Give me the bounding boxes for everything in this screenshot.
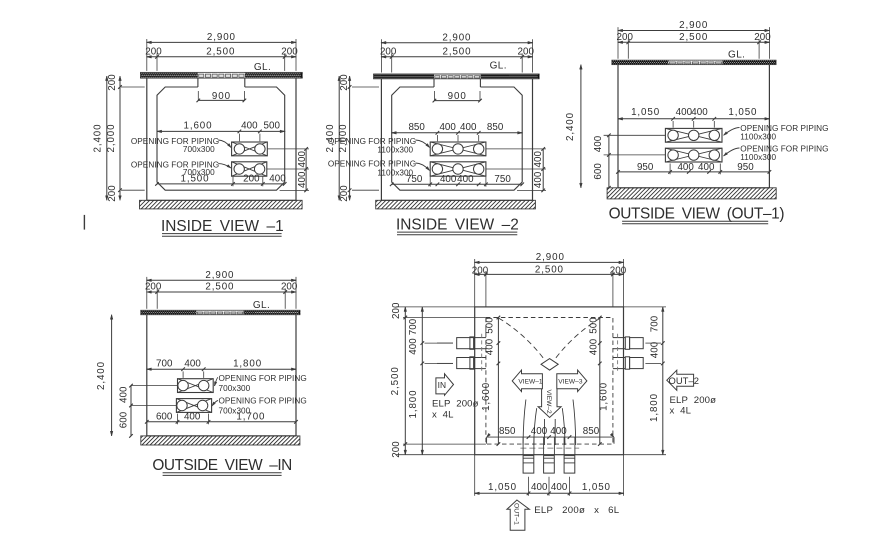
svg-text:400: 400 — [118, 386, 129, 403]
view1 opening 700x300 upper — [232, 142, 268, 156]
view4 left dim 2,400 — [111, 315, 113, 436]
svg-text:600: 600 — [593, 163, 604, 180]
view4 left dims 400/600 — [131, 385, 178, 387]
plan outer square — [475, 307, 624, 455]
view2 opening 1100x300 lower — [430, 162, 486, 176]
plan bottom pipe 3 — [564, 456, 575, 474]
svg-text:900: 900 — [212, 91, 231, 102]
view4 outer wall face — [146, 315, 148, 436]
svg-text:200: 200 — [339, 185, 350, 202]
svg-text:VIEW–2: VIEW–2 — [545, 390, 552, 415]
plan bottom pipe arcs — [523, 400, 526, 446]
svg-text:VIEW–3: VIEW–3 — [558, 379, 583, 386]
view2 roof notch 900 — [433, 79, 435, 87]
svg-text:600: 600 — [118, 411, 129, 428]
view2 inner room outline with chamfers — [392, 87, 523, 190]
svg-text:400: 400 — [533, 150, 544, 167]
svg-text:x 4L: x 4L — [670, 406, 692, 417]
svg-text:2,900: 2,900 — [205, 270, 234, 281]
svg-text:1,600: 1,600 — [183, 121, 212, 132]
svg-text:400: 400 — [593, 135, 604, 152]
svg-text:2,500: 2,500 — [205, 282, 234, 293]
svg-text:GL.: GL. — [490, 61, 507, 72]
svg-text:400: 400 — [184, 358, 201, 369]
svg-text:400: 400 — [698, 162, 715, 173]
svg-text:950: 950 — [737, 162, 754, 173]
view1 opening 700x300 lower — [232, 162, 267, 176]
svg-text:2,500: 2,500 — [390, 366, 401, 395]
view4 leader 2 — [212, 401, 218, 407]
view3 dim 2,900 top — [618, 30, 769, 32]
svg-text:1100x300: 1100x300 — [740, 153, 776, 162]
svg-text:1,800: 1,800 — [408, 389, 419, 418]
svg-text:400: 400 — [531, 426, 548, 437]
view1 outer wall — [146, 78, 148, 200]
svg-text:400: 400 — [241, 121, 258, 132]
svg-text:400: 400 — [184, 411, 201, 422]
svg-text:400: 400 — [440, 174, 457, 185]
view3 dim 2,500/200 top — [618, 41, 769, 43]
svg-text:1100x300: 1100x300 — [740, 133, 776, 142]
svg-text:600: 600 — [156, 411, 173, 422]
svg-text:700: 700 — [408, 318, 419, 335]
plan left inlet pipe row2 — [437, 362, 453, 364]
svg-text:2,900: 2,900 — [207, 32, 236, 43]
svg-text:200: 200 — [145, 282, 162, 293]
plan dashed slab opening arc right — [555, 318, 601, 359]
svg-text:400: 400 — [550, 426, 567, 437]
view1 dim 2,500/200 top — [147, 56, 296, 58]
svg-text:200: 200 — [610, 266, 627, 277]
plan IN arrow — [436, 374, 454, 396]
view4 opening 700x300 upper — [178, 379, 214, 393]
svg-text:200: 200 — [107, 74, 118, 91]
svg-text:750: 750 — [406, 174, 423, 185]
svg-text:OPENING FOR PIPING: OPENING FOR PIPING — [219, 374, 307, 383]
view1 left dims 200/2,000/200 — [119, 76, 121, 200]
view1 left dim 2,400 — [106, 76, 108, 200]
plan right outlet pipe row2 — [613, 357, 625, 359]
plan bottom OUT-1 arrow up — [507, 500, 530, 530]
svg-text:1,050: 1,050 — [488, 482, 517, 493]
svg-text:ELP 200ø x 6L: ELP 200ø x 6L — [534, 505, 620, 516]
svg-text:400: 400 — [551, 482, 568, 493]
plan inner-right dim col 500/400/1,600 — [599, 318, 601, 445]
view3 leader 2 — [724, 148, 740, 156]
svg-text:400: 400 — [439, 122, 456, 133]
svg-text:x 4L: x 4L — [432, 409, 454, 420]
svg-text:200: 200 — [281, 282, 298, 293]
view2 right dim 400/400 — [486, 148, 546, 150]
svg-text:ELP 200ø: ELP 200ø — [432, 398, 479, 409]
view1 leader 2 — [218, 164, 231, 168]
view2 mid dim 850/400/400/850 — [392, 132, 523, 134]
svg-text:200: 200 — [380, 46, 397, 57]
svg-text:200: 200 — [145, 46, 162, 57]
view1 roof notch 900 — [197, 78, 199, 87]
svg-text:850: 850 — [583, 426, 600, 437]
svg-text:1,050: 1,050 — [728, 107, 757, 118]
plan right wall hidden line — [617, 334, 619, 372]
plan left wall hidden line — [481, 334, 483, 372]
svg-text:1100x300: 1100x300 — [377, 146, 413, 155]
view1 leader 1 — [218, 140, 231, 148]
plan dashed slab opening arc left — [499, 318, 545, 359]
svg-text:1,600: 1,600 — [481, 382, 492, 411]
svg-text:200: 200 — [391, 441, 402, 458]
plan right ext lines — [624, 306, 667, 308]
view3 mid dim 1,050/400/400/1,050 — [618, 118, 769, 120]
plan bottom pipe 1 — [523, 456, 534, 474]
svg-text:2,400: 2,400 — [93, 123, 104, 152]
view4 dim 2,500/200 top — [147, 291, 296, 293]
view3 left dim 2,400 — [580, 65, 582, 188]
svg-text:1,500: 1,500 — [180, 174, 209, 185]
svg-text:200: 200 — [243, 174, 260, 185]
plan right dim col 700/400/1,800 — [662, 307, 664, 455]
svg-text:850: 850 — [408, 122, 425, 133]
plan OUT-2 arrow — [667, 370, 694, 390]
view4 opening 700x300 lower — [176, 399, 211, 413]
svg-text:OUTSIDE VIEW (OUT–1): OUTSIDE VIEW (OUT–1) — [609, 206, 785, 223]
view1 ground slab strip — [141, 72, 303, 78]
svg-text:200: 200 — [339, 74, 350, 91]
view2 ground slab strip — [374, 74, 539, 79]
svg-text:200: 200 — [107, 185, 118, 202]
svg-text:400: 400 — [485, 338, 496, 355]
svg-text:400: 400 — [269, 174, 286, 185]
view2 outer wall — [380, 79, 382, 201]
view3 left dims 400/600 — [604, 134, 666, 136]
svg-text:OUTSIDE VIEW –IN: OUTSIDE VIEW –IN — [152, 457, 291, 474]
svg-text:ELP 200ø: ELP 200ø — [670, 395, 717, 406]
svg-text:200: 200 — [518, 46, 535, 57]
svg-text:2,900: 2,900 — [679, 20, 708, 31]
svg-text:200: 200 — [754, 32, 771, 43]
svg-text:400: 400 — [408, 338, 419, 355]
view1 floor hatch — [140, 200, 303, 209]
svg-text:500: 500 — [264, 121, 281, 132]
view1 mid dim 1,600/400/500 — [157, 130, 285, 132]
plan bottom pipe 2 — [544, 456, 555, 474]
plan dim 2,900 top — [475, 261, 624, 263]
svg-text:400: 400 — [297, 150, 308, 167]
view4 ground slab strip — [141, 310, 300, 314]
svg-text:400: 400 — [589, 338, 600, 355]
svg-text:200: 200 — [617, 32, 634, 43]
view2 opening 1100x300 upper — [430, 142, 486, 156]
svg-text:GL.: GL. — [254, 62, 271, 73]
svg-text:1,050: 1,050 — [631, 107, 660, 118]
view4 dim 2,900 top — [147, 279, 296, 281]
svg-text:IN: IN — [438, 380, 446, 390]
svg-text:400: 400 — [533, 171, 544, 188]
svg-text:OUT–1: OUT–1 — [512, 503, 519, 525]
view1 right dim 400/400 — [267, 148, 309, 150]
svg-text:1,600: 1,600 — [599, 382, 610, 411]
plan bottom grey hidden line — [520, 447, 579, 449]
svg-text:2,500: 2,500 — [442, 46, 471, 57]
svg-text:200: 200 — [281, 46, 298, 57]
svg-text:1,800: 1,800 — [233, 358, 262, 369]
svg-text:GL.: GL. — [728, 49, 745, 60]
svg-text:OPENING FOR PIPING: OPENING FOR PIPING — [219, 397, 307, 406]
view3 ground slab strip — [612, 60, 776, 64]
view1 inner room outline with chamfers — [157, 87, 285, 190]
svg-text:400: 400 — [676, 107, 693, 118]
view3 outer wall face — [617, 65, 619, 188]
stray tick mark left margin — [83, 215, 85, 230]
plan left inlet pipe row1 — [437, 342, 453, 344]
svg-text:2,400: 2,400 — [565, 112, 576, 141]
svg-text:2,500: 2,500 — [206, 46, 235, 57]
svg-text:200: 200 — [391, 302, 402, 319]
svg-text:500: 500 — [485, 317, 496, 334]
svg-text:1,700: 1,700 — [236, 411, 265, 422]
view4 leader 1 — [215, 378, 219, 387]
svg-text:2,000: 2,000 — [106, 123, 117, 152]
svg-text:700x300: 700x300 — [219, 384, 251, 393]
view3 opening 1100x300 lower — [665, 148, 722, 162]
svg-text:GL.: GL. — [253, 300, 270, 311]
plan inner dashed square — [486, 318, 613, 445]
plan center diamond — [541, 359, 558, 371]
plan dim 2,500/200 top — [475, 273, 624, 275]
svg-text:700: 700 — [156, 358, 173, 369]
view3 leader 1 — [724, 128, 740, 136]
plan inner-left dim col 500/400/1,600 — [497, 318, 499, 445]
plan bottom pipes through wall — [522, 437, 524, 455]
view3 opening 1100x300 upper — [665, 128, 722, 142]
svg-text:700: 700 — [649, 315, 660, 332]
svg-text:400: 400 — [691, 107, 708, 118]
view3 floor hatch — [607, 188, 776, 199]
view2 leader 1 — [416, 140, 430, 148]
svg-text:2,500: 2,500 — [679, 32, 708, 43]
svg-text:1,050: 1,050 — [582, 482, 611, 493]
view4 floor hatch — [141, 436, 300, 445]
svg-text:400: 400 — [460, 122, 477, 133]
svg-text:400: 400 — [677, 162, 694, 173]
svg-text:750: 750 — [494, 174, 511, 185]
svg-text:2,900: 2,900 — [442, 32, 471, 43]
view4 mid dim 700/400/1,800 — [147, 368, 296, 370]
svg-text:2,500: 2,500 — [535, 265, 564, 276]
view1 dim 2,900 top — [147, 41, 296, 43]
svg-text:400: 400 — [297, 171, 308, 188]
plan view-1 arrow — [512, 370, 542, 392]
svg-text:OPENING FOR PIPING: OPENING FOR PIPING — [328, 137, 416, 146]
svg-text:700x300: 700x300 — [183, 145, 215, 154]
svg-text:OPENING FOR PIPING: OPENING FOR PIPING — [328, 160, 416, 169]
plan left ext lines to dim columns — [396, 306, 475, 308]
svg-text:950: 950 — [637, 162, 654, 173]
view2 floor hatch — [376, 200, 536, 209]
plan left dim col 200/2,500/200 — [404, 307, 406, 455]
svg-text:900: 900 — [448, 91, 467, 102]
view1 dim 900 — [197, 91, 199, 100]
svg-text:1,800: 1,800 — [649, 393, 660, 422]
plan right outlet pipe row1 — [613, 337, 625, 339]
view2 left dim 2,400 — [338, 76, 340, 200]
svg-text:INSIDE VIEW –2: INSIDE VIEW –2 — [396, 217, 519, 234]
svg-text:2,400: 2,400 — [96, 361, 107, 390]
plan view-3 arrow — [557, 370, 587, 392]
svg-text:2,900: 2,900 — [536, 252, 565, 263]
svg-text:400: 400 — [649, 341, 660, 358]
view2 dim 2,900 top — [381, 42, 532, 44]
svg-text:850: 850 — [499, 426, 516, 437]
svg-text:VIEW–1: VIEW–1 — [518, 379, 543, 386]
view2 dim 2,500/200 top — [381, 56, 532, 58]
plan view-2 arrow down — [538, 389, 561, 418]
plan left dim col 700/400/1,800 — [421, 307, 423, 455]
svg-text:OUT–2: OUT–2 — [669, 375, 699, 386]
svg-text:850: 850 — [487, 122, 504, 133]
view2 dim 900 — [433, 91, 435, 101]
svg-text:INSIDE VIEW –1: INSIDE VIEW –1 — [161, 218, 284, 235]
view2 left dims 200/2,000/200 — [349, 76, 351, 200]
svg-text:400: 400 — [531, 482, 548, 493]
view2 leader 2 — [416, 163, 430, 171]
